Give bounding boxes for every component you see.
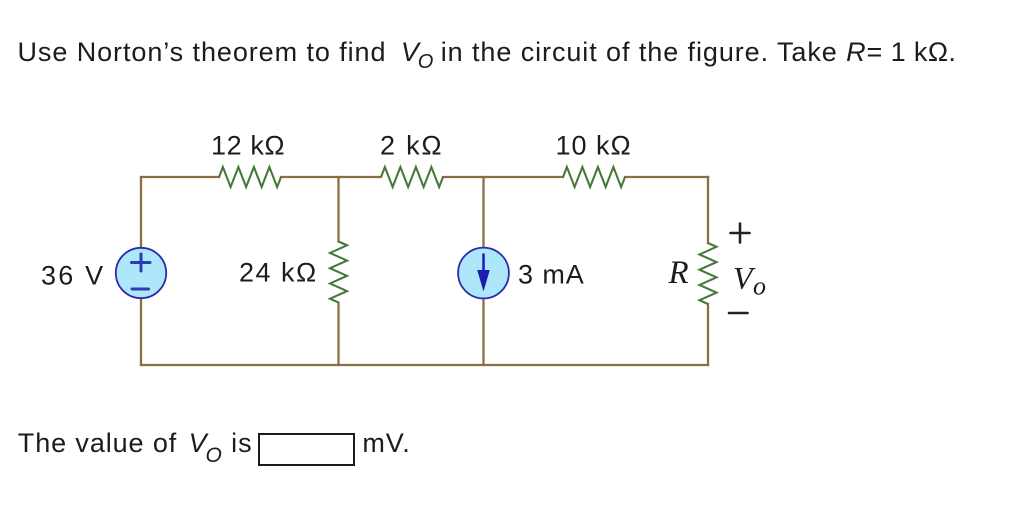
svg-text:o: o (753, 272, 766, 301)
svg-text:2 kΩ: 2 kΩ (380, 130, 443, 160)
svg-text:12 kΩ: 12 kΩ (211, 130, 285, 160)
svg-text:3 mA: 3 mA (518, 260, 585, 290)
svg-text:36 V: 36 V (41, 261, 105, 291)
svg-text:R: R (668, 255, 689, 291)
svg-text:24 kΩ: 24 kΩ (239, 258, 318, 288)
svg-text:10 kΩ: 10 kΩ (556, 130, 632, 160)
